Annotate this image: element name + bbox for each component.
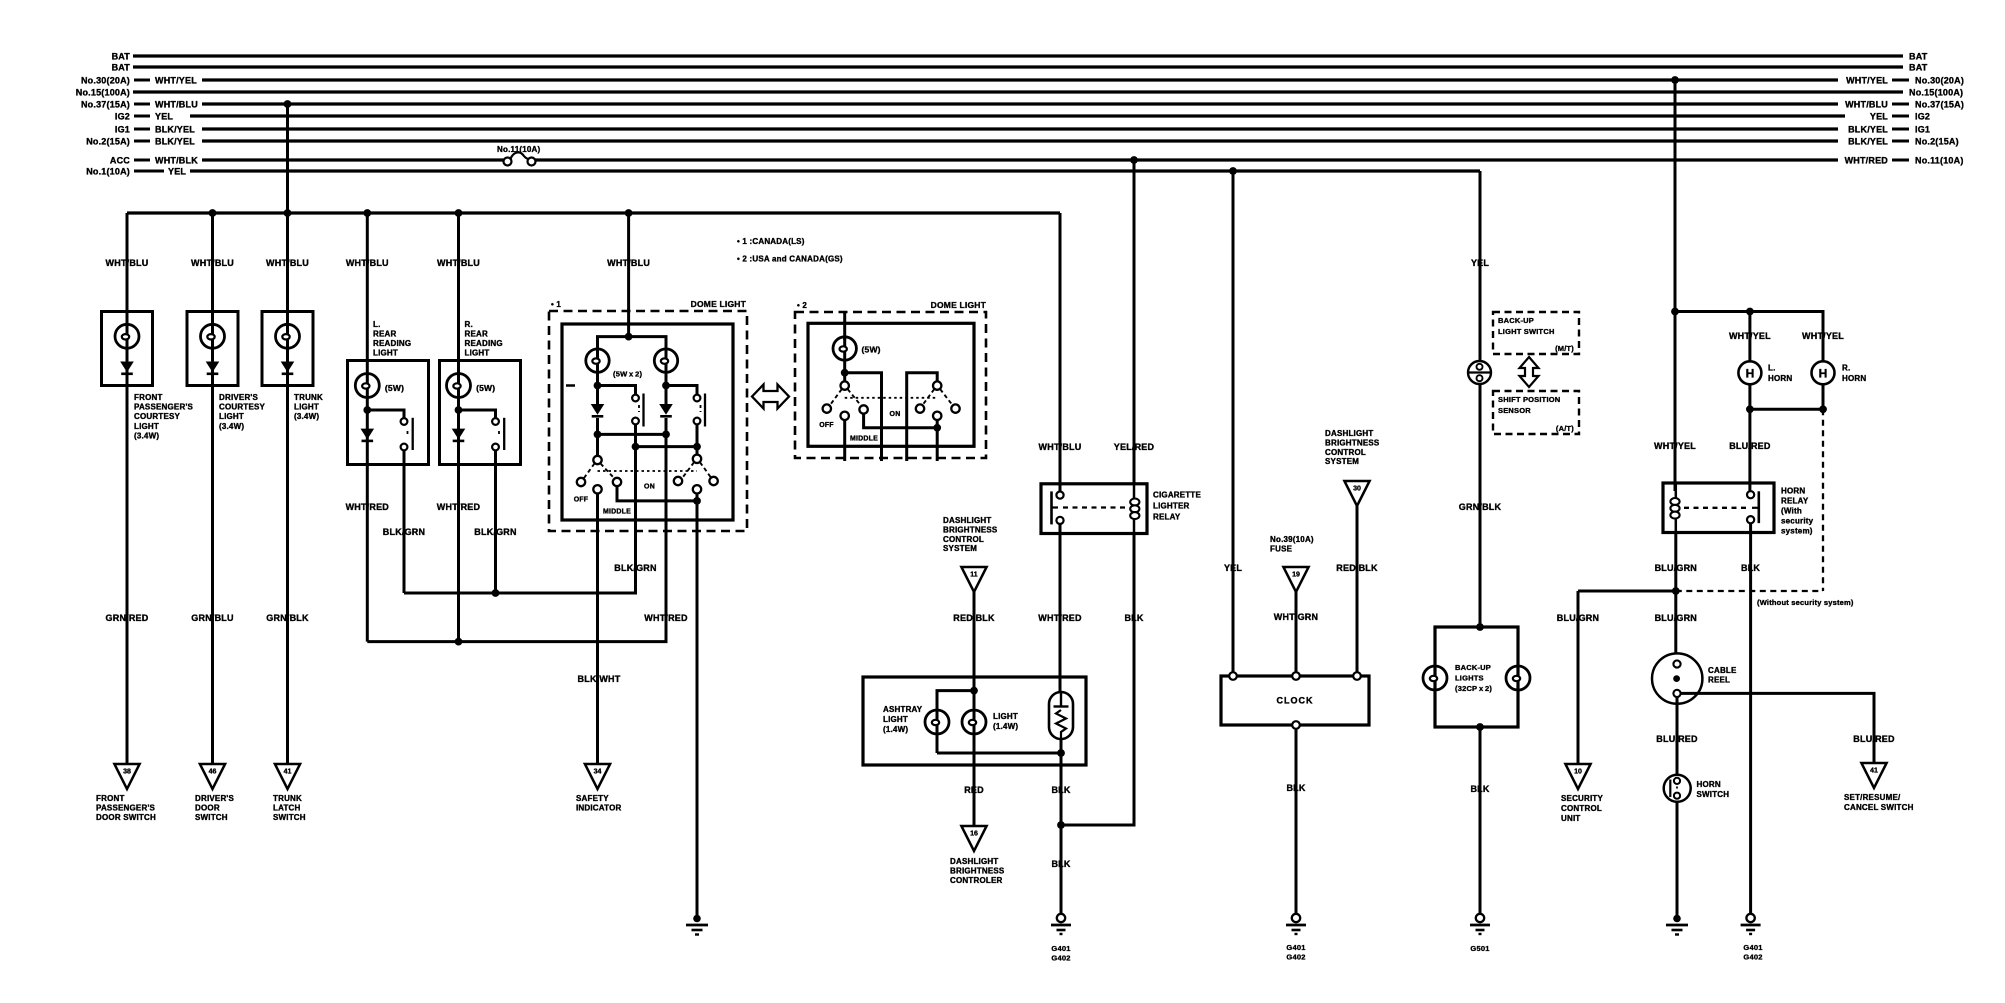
svg-text:WHT/YEL: WHT/YEL: [1802, 331, 1844, 341]
svg-text:WHT/RED: WHT/RED: [644, 613, 688, 623]
switch actuator bar: [412, 418, 414, 450]
svg-text:BAT: BAT: [1909, 52, 1928, 62]
wire BLK horn relay output to ground: [1749, 523, 1752, 914]
svg-text:WHT/BLU: WHT/BLU: [346, 258, 389, 268]
dome2 feed stub: [843, 312, 846, 340]
wire BLU/GRN horn relay coil output: [1674, 533, 1677, 592]
junction dot below bulb: [455, 406, 463, 414]
dome1 right rotary switch common: [696, 447, 699, 455]
connector triangle 38 front passenger door switch: [114, 764, 139, 789]
wire BLK/GRN from L reading light switch: [403, 465, 406, 594]
dome light #2 inner box: [808, 323, 974, 446]
wire RED to dashlight brightness controller: [973, 765, 976, 826]
svg-text:WHT/BLK: WHT/BLK: [155, 156, 198, 166]
R horn symbol: [1812, 361, 1835, 384]
svg-text:WHT/YEL: WHT/YEL: [1729, 331, 1771, 341]
junction dot YEL/RED on No.11 bus: [1130, 156, 1138, 164]
bus No.37(15A) wire y=104: [202, 102, 1838, 105]
dome1 right contact circles: [694, 395, 701, 402]
wire WHT/GRN clock feed: [1295, 592, 1298, 672]
lamp wire: [366, 361, 369, 465]
svg-text:BLK/YEL: BLK/YEL: [1848, 137, 1888, 147]
dome2 lamp junction dot: [841, 369, 849, 377]
svg-text:(5W): (5W): [862, 345, 881, 355]
courtesy/trunk light box at x=287.5: [262, 312, 313, 386]
dome1 WHT/RED output stub: [665, 434, 668, 531]
svg-text:YEL: YEL: [155, 112, 173, 122]
connector triangle 46 driver door switch: [200, 764, 225, 789]
junction dot security branch: [1672, 587, 1680, 595]
svg-text:ON: ON: [644, 484, 655, 491]
horn branch top wire: [1675, 312, 1823, 363]
svg-text:IG2: IG2: [115, 112, 130, 122]
junction dot YEL on No.1 bus: [1229, 167, 1237, 175]
dome light #1 inner box: [562, 324, 733, 520]
connector triangle 41 set/resume cancel switch: [1861, 763, 1886, 788]
R rear reading light box: [440, 361, 521, 465]
svg-text:G401G402: G401G402: [1286, 943, 1305, 962]
wire BLK clock ground: [1295, 729, 1298, 914]
switch actuator bar: [503, 418, 505, 450]
horn relay contact: [1758, 491, 1761, 523]
svg-text:BLK: BLK: [1741, 563, 1760, 573]
junction WHT/BLU tap on No.37 bus: [284, 100, 292, 108]
switch contact circles: [401, 418, 408, 425]
dome light #2 dashed box: [795, 312, 986, 458]
horn relay coil: [1675, 483, 1678, 533]
svg-text:(5W): (5W): [385, 383, 404, 393]
junction dot BLK to ground: [1057, 821, 1065, 829]
svg-text:MIDDLE: MIDDLE: [603, 509, 631, 516]
wire BLK/WHT safety indicator: [596, 531, 599, 764]
element bottom wire: [1060, 739, 1063, 825]
courtesy/trunk light box at x=127: [102, 312, 153, 386]
svg-text:BLK: BLK: [1470, 784, 1489, 794]
svg-text:(A/T): (A/T): [1556, 424, 1574, 433]
junction dot horn branch: [1671, 308, 1679, 316]
cigarette lighter relay actuator dashed link: [1063, 506, 1127, 508]
svg-text:No.15(100A): No.15(100A): [76, 88, 130, 98]
svg-text:BLK/YEL: BLK/YEL: [155, 137, 195, 147]
junction dot WHT/YEL on No.30 bus: [1671, 76, 1679, 84]
branch wire to switch: [459, 410, 496, 418]
ground G401/G402 clock: [1286, 914, 1306, 934]
security branch wire: [1578, 590, 1676, 593]
bus BAT wire y=67: [133, 65, 1903, 68]
diode: [361, 429, 375, 441]
svg-text:• 1: • 1: [551, 300, 561, 309]
bulb: [286, 312, 289, 386]
svg-text:41: 41: [1870, 768, 1878, 775]
svg-text:WHT/YEL: WHT/YEL: [1654, 441, 1696, 451]
ground horn switch: [1666, 915, 1688, 935]
svg-text:DASHLIGHTBRIGHTNESSCONTROLER: DASHLIGHTBRIGHTNESSCONTROLER: [950, 857, 1005, 885]
dome1 right rotary contacts: [674, 477, 682, 485]
wire GRN/RED front passenger door switch: [126, 386, 129, 765]
junction dot element return: [1057, 749, 1065, 757]
svg-text:WHT/RED: WHT/RED: [437, 502, 481, 512]
svg-text:38: 38: [123, 769, 131, 776]
svg-text:GRN/BLU: GRN/BLU: [191, 613, 233, 623]
dome2 left rotary fan dashed: [831, 389, 842, 404]
wire BLK/GRN bus reading lights to dome light: [404, 531, 636, 593]
svg-text:No.2(15A): No.2(15A): [1915, 137, 1959, 147]
fuse No.11(10A) symbol: [504, 152, 536, 165]
dashed wire without security system: [1822, 409, 1824, 591]
svg-text:BAT: BAT: [112, 52, 131, 62]
svg-text:G401G402: G401G402: [1743, 943, 1762, 962]
svg-text:(5W x 2): (5W x 2): [613, 370, 642, 379]
svg-text:ON: ON: [890, 411, 901, 418]
junction dome-feed dots on distribution bus: [209, 209, 217, 217]
svg-text:WHT/BLU: WHT/BLU: [607, 258, 650, 268]
connector triangle 16 dashlight brightness controller: [961, 826, 986, 851]
dome1 right branch to door-switch contact: [666, 386, 697, 395]
wire BLK back-up ground: [1479, 727, 1482, 914]
svg-text:No.15(100A): No.15(100A): [1909, 88, 1963, 98]
junction dot back-up feed: [1476, 623, 1484, 631]
connector triangle 19 fuse No.39: [1283, 567, 1308, 592]
svg-text:34: 34: [594, 769, 602, 776]
horn relay box: [1663, 483, 1774, 533]
svg-text:WHT/BLU: WHT/BLU: [437, 258, 480, 268]
wire RED.BLK clock feed: [1356, 506, 1359, 672]
svg-text:16: 16: [970, 831, 978, 838]
dome1 left branch to door-switch contact: [598, 386, 636, 395]
diode: [206, 362, 220, 374]
bus IG2 wire y=116: [190, 114, 1845, 117]
svg-text:BLK: BLK: [1051, 785, 1070, 795]
dome1 left bulb: [596, 348, 599, 386]
dome1 left rotary fan dashed: [584, 464, 595, 479]
dome1 feed junction dot: [625, 333, 633, 341]
svg-text:BLU/GRN: BLU/GRN: [1655, 563, 1697, 573]
dome1 right diode: [665, 386, 668, 405]
dome1 feed bar: [598, 337, 667, 349]
wire BLU/RED to horn switch: [1676, 697, 1679, 774]
wire WHT/BLU feeder trunk light (from No.37 bus): [286, 104, 289, 313]
wire WHT/BLU feeder R rear reading light: [457, 213, 460, 362]
svg-text:• 2: • 2: [797, 301, 807, 310]
svg-text:No.1(10A): No.1(10A): [86, 167, 130, 177]
svg-text:No.30(20A): No.30(20A): [1915, 76, 1964, 86]
svg-text:WHT/BLU: WHT/BLU: [1845, 100, 1888, 110]
bus No.15(100A) wire y=92: [133, 90, 1903, 93]
cable reel symbol: [1652, 653, 1702, 703]
bus IG1 wire y=129: [202, 127, 1838, 130]
wire WHT/BLU feeder dome light: [627, 213, 630, 337]
svg-text:WHT/BLU: WHT/BLU: [1039, 442, 1082, 452]
horn output bus: [1748, 384, 1751, 409]
wire BLU/RED to horn relay contact: [1748, 409, 1751, 491]
wire WHT/RED from R reading light: [457, 465, 460, 642]
wire WHT/BLU feeder front passenger courtesy light: [126, 213, 129, 313]
wire WHT/YEL horn feeder: [1674, 80, 1677, 491]
wire BLK/GRN from R reading light switch: [494, 465, 497, 594]
dome1 middle contact wire: [617, 486, 697, 501]
wire RED/BLK from dashlight system: [973, 592, 976, 677]
svg-text:ACC: ACC: [110, 156, 130, 166]
ashtray light assembly box: [863, 677, 1086, 765]
svg-text:BLK/YEL: BLK/YEL: [1848, 125, 1888, 135]
bulb: [447, 374, 471, 398]
dome1 positions dotted line: [598, 470, 698, 472]
dome2 right output wire: [936, 420, 939, 461]
wire YEL to back-up circuit: [1479, 171, 1482, 361]
bus No.11 wire y=160 (right part WHT/RED): [536, 158, 1839, 161]
dome2 middle contact wire: [864, 414, 938, 428]
wire GRN/BLK trunk latch switch: [286, 386, 289, 765]
bulb: [211, 312, 214, 386]
svg-text:BAT: BAT: [1909, 63, 1928, 73]
ashtray branch wire: [937, 691, 974, 712]
cigarette lighter relay coil: [1133, 484, 1136, 534]
bus No.1(10A) YEL wire y=171: [190, 169, 1480, 172]
svg-text:IG2: IG2: [1915, 112, 1930, 122]
wire BLU/GRN to cable reel: [1674, 591, 1677, 660]
svg-text:OFF: OFF: [574, 497, 589, 504]
wire BLK to ground G401: [1060, 825, 1063, 915]
dome2 lamp branch wire: [845, 373, 882, 461]
connector triangle 11 dashlight source: [961, 567, 986, 592]
wire WHT/RED bus reading lights to dome light: [367, 531, 666, 642]
up-down equivalence arrow: [1520, 357, 1539, 387]
svg-text:No.37(15A): No.37(15A): [1915, 100, 1964, 110]
dome1 left rotary switch common: [596, 434, 599, 455]
dome1 right rotary fan dashed: [683, 462, 694, 477]
svg-text:19: 19: [1292, 572, 1300, 579]
svg-text:GRN/BLK: GRN/BLK: [1459, 502, 1502, 512]
junction dot L horn: [1746, 308, 1754, 316]
wire dome to ground: [696, 531, 699, 915]
dome light #1 dashed box: [549, 311, 747, 531]
switch wire to box bottom: [494, 450, 497, 464]
ashtray light bulb: [936, 710, 939, 753]
svg-text:CLOCK: CLOCK: [1277, 696, 1314, 706]
svg-text:IG1: IG1: [1915, 125, 1930, 135]
wire BLK relay coil output: [1061, 534, 1134, 826]
svg-text:G401G402: G401G402: [1051, 944, 1070, 963]
svg-text:BLU/GRN: BLU/GRN: [1557, 613, 1599, 623]
svg-text:GRN/BLK: GRN/BLK: [266, 613, 309, 623]
svg-text:RED: RED: [964, 785, 984, 795]
wire WHT/BLU feeder L rear reading light: [366, 213, 369, 362]
svg-text:BLU/RED: BLU/RED: [1729, 441, 1771, 451]
connector triangle 41 trunk latch switch: [275, 764, 300, 789]
svg-text:MIDDLE: MIDDLE: [850, 436, 878, 443]
wire WHT/RED from L reading light: [366, 465, 369, 642]
wire WHT/RED relay output: [1059, 524, 1062, 692]
dome1 off-switch output wire (safety indicator): [596, 494, 599, 532]
dome2 bulb: [843, 336, 846, 385]
bus BAT wire y=56: [133, 54, 1903, 57]
switch contact circles: [492, 418, 499, 425]
courtesy/trunk light box at x=212.5: [187, 312, 238, 386]
svg-text:YEL: YEL: [1870, 112, 1888, 122]
svg-text:WHT/BLU: WHT/BLU: [191, 258, 234, 268]
dome1 left contact circles: [632, 395, 639, 402]
junction dot WHT/RED bus: [455, 638, 463, 646]
svg-text:TRUNKLIGHT(3.4W): TRUNKLIGHT(3.4W): [294, 393, 323, 421]
svg-text:(Without security system): (Without security system): [1757, 598, 1854, 607]
svg-text:WHT/BLU: WHT/BLU: [266, 258, 309, 268]
junction dot below bulb: [363, 406, 371, 414]
connector triangle 34 safety indicator: [585, 764, 610, 789]
svg-text:BLU/RED: BLU/RED: [1853, 734, 1895, 744]
dashed link without security system: [1676, 590, 1823, 592]
dome1 left rotary contacts: [577, 478, 585, 486]
dome2 positions dotted line: [845, 397, 938, 399]
svg-text:RED.BLK: RED.BLK: [1336, 563, 1378, 573]
wire WHT/BLU feeder cigarette lighter relay: [1059, 213, 1062, 492]
svg-text:DOME LIGHT: DOME LIGHT: [691, 299, 747, 309]
dome1 polarity tick: [566, 384, 575, 387]
svg-text:DOME LIGHT: DOME LIGHT: [931, 300, 987, 310]
svg-text:YEL/RED: YEL/RED: [1114, 442, 1155, 452]
svg-text:GRN/RED: GRN/RED: [106, 613, 149, 623]
dome1 right contact bar: [704, 394, 706, 427]
svg-text:WHT/BLU: WHT/BLU: [155, 100, 198, 110]
svg-text:(M/T): (M/T): [1555, 344, 1574, 353]
dome1 diode output bus: [598, 433, 667, 436]
bulb: [355, 374, 379, 398]
dome1 contact output bus: [634, 424, 637, 446]
diode: [120, 362, 134, 374]
svg-text:No.11(10A): No.11(10A): [497, 145, 540, 154]
svg-text:YEL: YEL: [1471, 258, 1489, 268]
horn switch symbol: [1664, 775, 1691, 802]
lamp wire: [457, 361, 460, 465]
dome2 right rotary common: [933, 381, 941, 389]
dome1 right bulb: [665, 348, 668, 386]
back-up left bulb: [1423, 666, 1447, 690]
svg-text:BAT: BAT: [112, 63, 131, 73]
svg-text:YEL: YEL: [168, 167, 186, 177]
dome1 left lamp junction dot: [594, 382, 602, 390]
dome1 BLK/GRN output stub: [634, 447, 637, 531]
L horn symbol: [1738, 361, 1761, 384]
dome2 right rotary fan dashed: [923, 389, 934, 404]
connector triangle 30 dashlight source clock: [1344, 481, 1369, 506]
dome2 left rotary common: [841, 381, 849, 389]
shift position sensor dashed box: [1493, 391, 1579, 434]
svg-text:No.2(15A): No.2(15A): [86, 137, 130, 147]
bulb: [126, 312, 129, 386]
ground G401/G402 horn: [1741, 914, 1761, 934]
svg-text:RED/BLK: RED/BLK: [953, 613, 995, 623]
ashtray feed junction dot: [973, 677, 976, 765]
svg-text:BLK: BLK: [1124, 613, 1143, 623]
ground dome light: [686, 915, 708, 935]
svg-text:WHT/YEL: WHT/YEL: [155, 76, 197, 86]
svg-text:BLK/GRN: BLK/GRN: [383, 527, 425, 537]
wire cable reel to set/resume switch: [1681, 693, 1874, 763]
bus No.30(20A) wire y=80: [202, 78, 1838, 81]
svg-text:WHT/RED: WHT/RED: [346, 502, 390, 512]
svg-text:(5W): (5W): [476, 383, 495, 393]
svg-text:WHT/RED: WHT/RED: [1845, 156, 1889, 166]
svg-text:BLK: BLK: [1286, 783, 1305, 793]
svg-text:46: 46: [209, 769, 217, 776]
svg-text:41: 41: [284, 769, 292, 776]
svg-text:BLK/GRN: BLK/GRN: [614, 563, 656, 573]
dome1 right lamp junction dot: [662, 382, 670, 390]
wire horn switch to ground: [1676, 802, 1679, 915]
junction dot back-up return: [1476, 723, 1484, 731]
svg-text:10: 10: [1574, 769, 1582, 776]
svg-text:BLK/YEL: BLK/YEL: [155, 125, 195, 135]
dome1 left diode: [596, 386, 599, 405]
back-up right bulb: [1506, 666, 1530, 690]
dome1 right rotary output wire: [696, 494, 699, 532]
svg-text:No.11(10A): No.11(10A): [1915, 156, 1964, 166]
ground G501: [1470, 914, 1490, 934]
bus ACC / No.11(10A) wire y=160 (left part WHT/BLK): [202, 158, 504, 161]
back-up lights box: [1435, 627, 1518, 727]
horn relay actuator dashed link: [1684, 507, 1746, 509]
dome2 right rotary contacts: [916, 404, 924, 412]
svg-text:H: H: [1746, 366, 1755, 380]
wire to L horn: [1748, 312, 1751, 363]
svg-text:No.37(15A): No.37(15A): [81, 100, 130, 110]
distribution bus WHT/BLU y=213: [127, 211, 1060, 214]
connector triangle 10 security control unit: [1565, 764, 1590, 789]
svg-text:YEL: YEL: [1224, 563, 1242, 573]
svg-text:11: 11: [970, 572, 978, 579]
svg-text:WHT/BLU: WHT/BLU: [106, 258, 149, 268]
equivalence double arrow between dome light variants: [752, 385, 789, 409]
svg-text:WHT/YEL: WHT/YEL: [1846, 76, 1888, 86]
switch wire to box bottom: [403, 450, 406, 464]
L rear reading light box: [348, 361, 429, 465]
svg-text:BLU/RED: BLU/RED: [1656, 734, 1698, 744]
svg-text:BLK/GRN: BLK/GRN: [474, 527, 516, 537]
clock terminals: [1229, 672, 1237, 680]
wire GRN/BLK to back-up lights: [1479, 384, 1482, 627]
svg-text:OFF: OFF: [819, 422, 834, 429]
illumination light bulb: [962, 710, 986, 734]
cigarette lighter relay contact: [1050, 491, 1053, 524]
cigarette lighter element: [1049, 692, 1073, 739]
wire GRN/BLU driver door switch: [211, 386, 214, 765]
svg-text:IG1: IG1: [115, 125, 130, 135]
ashtray return bus: [937, 752, 1061, 755]
svg-text:No.30(20A): No.30(20A): [81, 76, 130, 86]
wire YEL clock feed: [1232, 171, 1235, 672]
diode: [281, 362, 295, 374]
dome2 off output wire: [843, 420, 846, 461]
svg-text:30: 30: [1353, 486, 1361, 493]
dome2 left rotary contacts: [823, 404, 831, 412]
wire WHT/BLU feeder driver courtesy light: [211, 213, 214, 313]
svg-text:BLK: BLK: [1051, 859, 1070, 869]
diode: [452, 429, 466, 441]
branch wire to switch: [367, 410, 404, 418]
dome1 left contact bar: [642, 394, 644, 427]
clock box: [1221, 676, 1369, 725]
inline connector back-up feed: [1468, 361, 1491, 384]
bus No.2(15A) wire y=141: [202, 139, 1838, 142]
ground G401/G402 ashtray: [1051, 914, 1071, 934]
svg-text:WHT/RED: WHT/RED: [1038, 613, 1082, 623]
svg-text:LIGHT(1.4W): LIGHT(1.4W): [993, 712, 1018, 731]
wire YEL/RED feeder cigarette lighter relay: [1133, 160, 1136, 484]
junction dot BLK/GRN bus: [492, 589, 500, 597]
back-up light switch dashed box: [1493, 312, 1579, 354]
svg-text:WHT/GRN: WHT/GRN: [1274, 612, 1318, 622]
svg-text:G501: G501: [1470, 944, 1489, 953]
svg-text:BLK/WHT: BLK/WHT: [578, 674, 621, 684]
